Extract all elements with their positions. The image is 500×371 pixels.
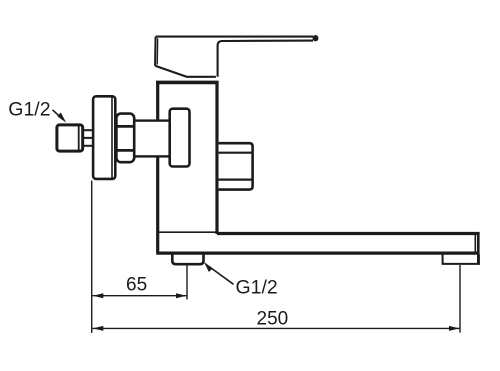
svg-text:250: 250 xyxy=(257,309,289,330)
svg-text:G1/2: G1/2 xyxy=(236,276,278,298)
svg-text:G1/2: G1/2 xyxy=(8,98,50,120)
svg-text:65: 65 xyxy=(126,275,147,296)
